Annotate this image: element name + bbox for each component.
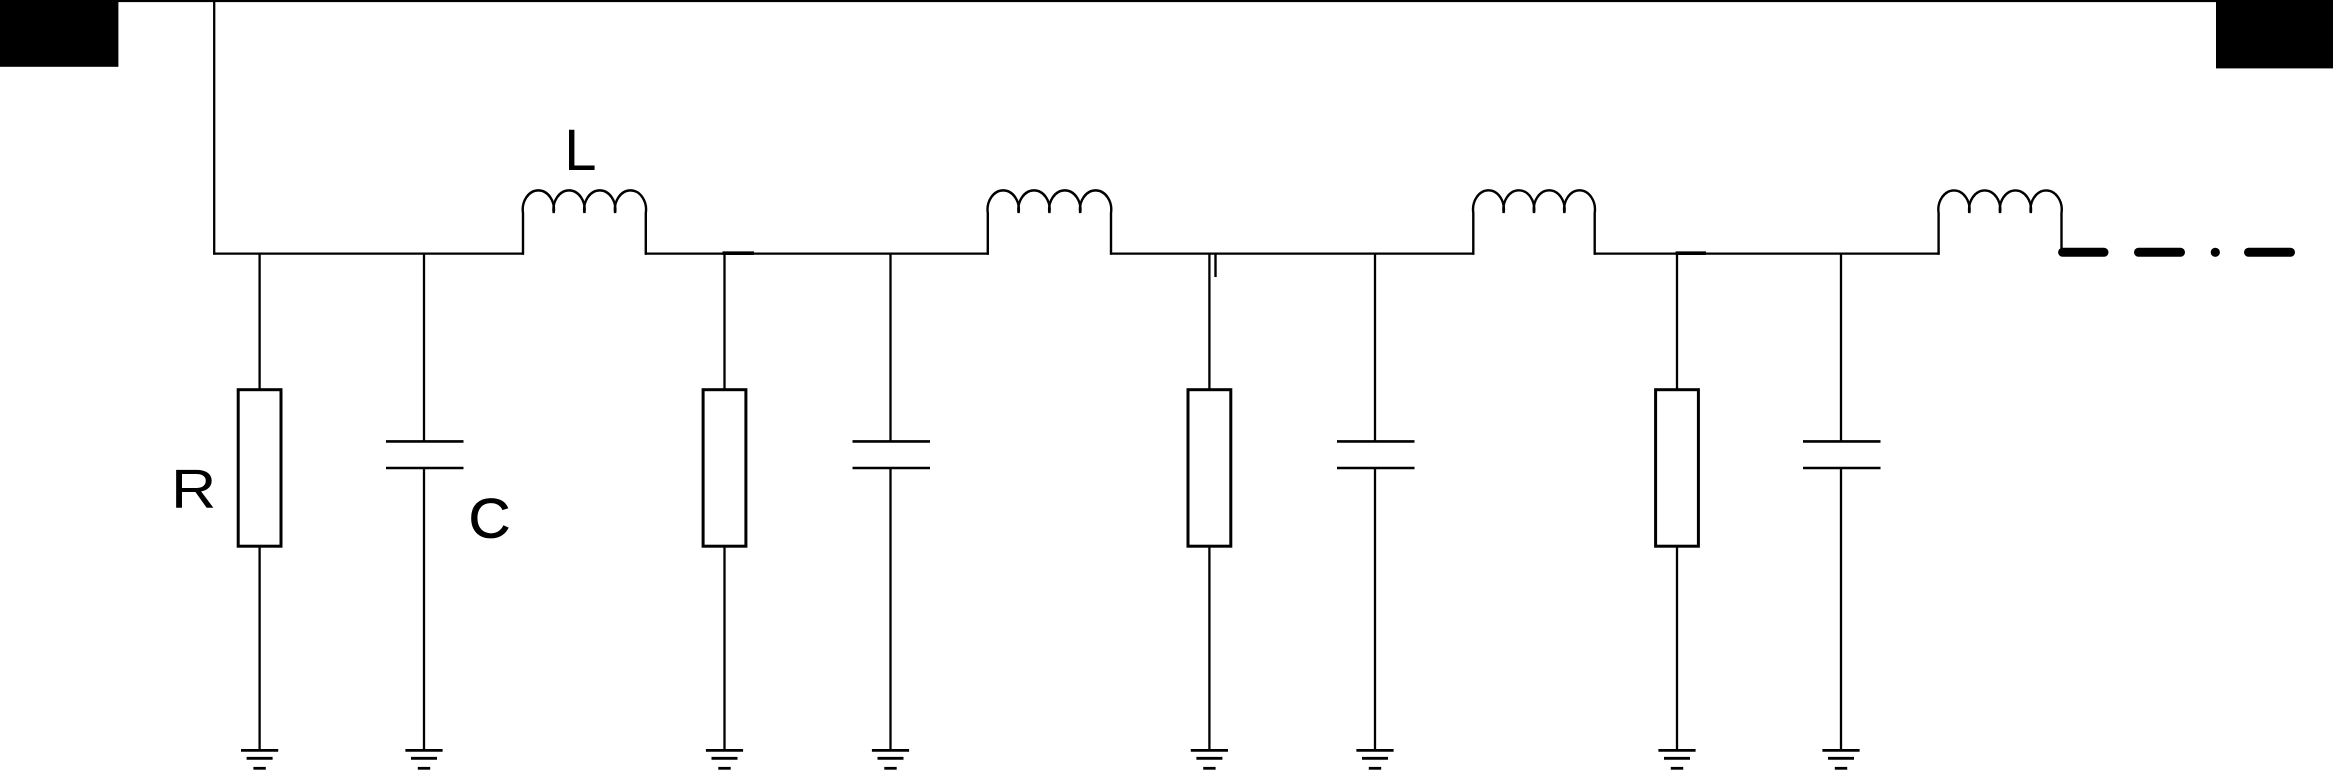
svg-text:L: L	[564, 118, 596, 183]
wire: R4 top	[1676, 254, 1678, 389]
wire: R3 top	[1208, 254, 1210, 389]
ground under C1	[405, 750, 442, 768]
wire: junction overlap node D	[1676, 251, 1707, 255]
ground under R4	[1658, 750, 1695, 768]
wire: rail segment D	[1594, 252, 1940, 254]
wire: C2 top	[889, 254, 891, 442]
ground under C3	[1356, 750, 1393, 768]
ground under C4	[1822, 750, 1859, 768]
wire: source feed vertical	[213, 1, 215, 255]
wire: R1 bottom	[258, 546, 260, 750]
dot of dash-dot line	[2211, 248, 2220, 257]
top border wire	[0, 0, 2333, 2]
capacitor C3	[1337, 441, 1415, 468]
wire: C4 bottom	[1840, 468, 1842, 750]
wire: rail segment B	[645, 252, 989, 254]
wire: R1 top	[258, 254, 260, 389]
wire: C2 bottom	[889, 468, 891, 750]
ground under R1	[241, 750, 278, 768]
inductor L3	[1473, 190, 1595, 254]
wire: R3 bottom	[1208, 546, 1210, 750]
ground under R2	[706, 750, 743, 768]
wire: dash-dot continuation	[2063, 248, 2291, 257]
label R	[171, 459, 216, 520]
resistor R1	[238, 390, 281, 547]
ground under R3	[1191, 750, 1228, 768]
inductor L2	[988, 190, 1112, 254]
black block top-right	[2216, 0, 2333, 68]
wire: C1 bottom	[423, 468, 425, 750]
label L	[564, 118, 596, 183]
capacitor C2	[853, 441, 931, 468]
resistor R2	[703, 390, 746, 547]
wire: R4 bottom	[1676, 546, 1678, 750]
black block top-left	[0, 0, 118, 67]
inductor L4	[1938, 190, 2061, 254]
wire: stub at node C	[1214, 254, 1216, 277]
wire: C3 top	[1374, 254, 1376, 442]
resistor R4	[1656, 390, 1699, 547]
svg-text:C: C	[469, 488, 511, 550]
wire: R2 top	[723, 254, 725, 389]
wire: junction overlap node B	[723, 251, 755, 255]
wire: C4 top	[1840, 254, 1842, 442]
wire: R2 bottom	[723, 546, 725, 750]
wire: C3 bottom	[1374, 468, 1376, 750]
wire: rail segment A	[213, 252, 524, 254]
label C	[469, 488, 511, 550]
capacitor C1	[386, 441, 464, 468]
capacitor C4	[1803, 441, 1881, 468]
ground under C2	[872, 750, 909, 768]
resistor R3	[1188, 390, 1231, 547]
wire: rail segment C	[1110, 252, 1474, 254]
inductor L1	[523, 190, 646, 254]
svg-text:R: R	[171, 459, 216, 520]
wire: C1 top	[423, 254, 425, 442]
